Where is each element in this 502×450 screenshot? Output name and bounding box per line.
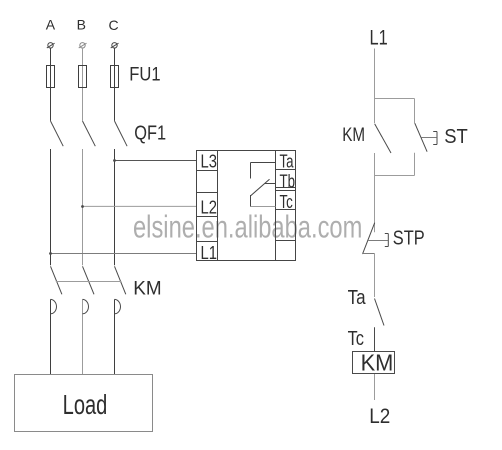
svg-text:elsine.en.alibaba.com: elsine.en.alibaba.com [133, 209, 362, 244]
svg-text:KM: KM [361, 350, 394, 376]
svg-text:L2: L2 [201, 197, 217, 218]
svg-text:Tb: Tb [280, 171, 296, 192]
svg-text:FU1: FU1 [129, 63, 160, 85]
svg-text:KM: KM [342, 123, 365, 145]
svg-text:STP: STP [393, 226, 425, 249]
svg-text:L2: L2 [369, 405, 390, 428]
svg-text:C: C [108, 17, 118, 33]
svg-text:Ta: Ta [348, 286, 367, 309]
svg-text:Load: Load [63, 390, 108, 421]
svg-text:Tc: Tc [280, 192, 293, 213]
svg-text:A: A [46, 17, 56, 33]
svg-text:ST: ST [444, 125, 468, 148]
svg-text:Tc: Tc [348, 327, 364, 350]
svg-text:B: B [77, 17, 86, 33]
svg-text:L1: L1 [369, 25, 387, 48]
svg-text:L1: L1 [201, 243, 217, 264]
svg-text:KM: KM [133, 278, 161, 299]
svg-text:Ta: Ta [280, 151, 294, 172]
svg-text:L3: L3 [201, 151, 217, 172]
svg-text:QF1: QF1 [134, 121, 166, 144]
